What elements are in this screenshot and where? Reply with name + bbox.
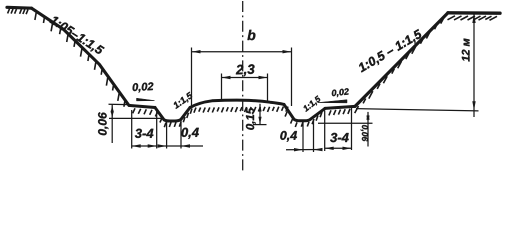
dimension 3-4 right line [325,147,352,149]
hatching under right berm [329,110,331,115]
left cut slope line 1:0,5-1:1,5 [32,8,131,105]
hatching under left ditch bottom [164,123,166,128]
label 12 m [462,38,470,61]
extension lines for 0,4 left [166,122,168,149]
label left slope ratio 1:05-1:1,5 [48,15,104,57]
ground surface line left [7,6,32,10]
right berm line [325,106,355,108]
dimension 0,4 right line with outside arrows [286,149,322,151]
reference line berm level left [109,103,130,105]
extension lines for 3-4 right [324,111,326,152]
left berm line [130,106,155,108]
extension line left for 2,3 [221,74,223,102]
label 0,06 right [361,125,368,141]
ground surface line right [448,11,500,15]
extension lines for 3-4 left [131,110,133,149]
extension line right for b [291,48,293,107]
left ditch (kyuvet) profile [155,108,190,122]
hatching under right ditch outer wall [285,112,287,117]
label 0,15 [246,108,256,130]
reference line ditch edge level left [109,117,163,119]
hatching under right cut slope [355,106,359,113]
hatching under left ground line [8,9,10,14]
dimension 12 m vertical line [473,14,475,118]
dimension 2,3 (carriageway) line [222,77,268,79]
label right ditch outer slope 1:1,5 [302,95,322,113]
label 0,06 left [98,112,108,135]
extension line berm level to right for 12 m [356,109,479,111]
dimension 3-4 left line [132,145,157,147]
label 0,02 right berm slope [332,88,350,97]
dimension b (roadbed width) line [192,51,292,53]
extension line left for b [191,48,193,106]
road axis centerline (dash-dot) [242,1,244,172]
hatching under left ditch outer wall [155,112,157,117]
label 2,3 [236,64,255,76]
label left ditch inner slope 1:1,5 [172,92,194,110]
label 3-4 right [330,133,348,142]
right ditch (kyuvet) profile [284,104,325,120]
hatching under road surface [194,108,196,113]
label 0,4 left [181,128,198,139]
hatching under left cut slope [35,13,36,20]
label b [247,30,255,40]
road surface crowned line [190,100,284,107]
hatching under left ditch inner slope [183,117,185,122]
hatching under right ditch bottom [295,122,297,127]
extension line right for 2,3 [267,74,269,103]
dimension 0,4 left line with outside arrows [158,145,204,147]
label 0,4 right [280,131,297,142]
hatching under right ground line [448,16,456,20]
label right slope ratio 1:0,5-1:1,5 [357,29,423,74]
hatching under right ditch inner slope [312,119,314,124]
dimension 0,15 pavement leader line [259,104,261,125]
dimension 0,06 left vertical line [111,105,113,144]
dimension 0,06 right vertical line [367,112,369,147]
right cut slope line 1:0,5-1:1,5 [355,13,448,107]
reference line ditch edge level right [318,122,373,124]
extension lines for 0,4 right [302,122,304,152]
slope wedge symbol left berm [137,98,155,101]
hatching under left berm [133,108,135,113]
label 0,02 left berm slope [132,82,153,92]
slope wedge symbol right berm [318,100,347,103]
label 3-4 left [135,129,153,138]
